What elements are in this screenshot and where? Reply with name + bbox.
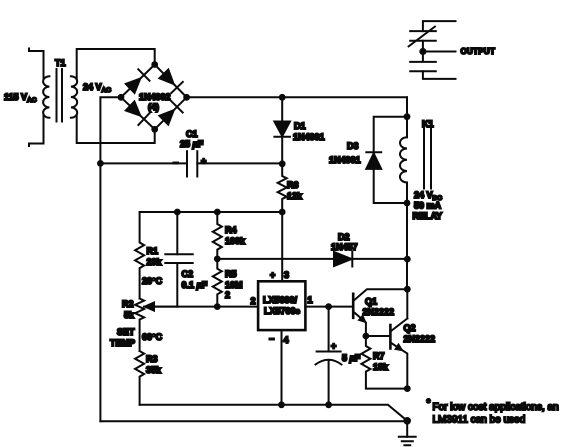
potentiometer R2 wiper arrow (145, 303, 177, 311)
svg-text:29k: 29k (147, 257, 163, 267)
node R6 bottom (279, 209, 286, 216)
wire C1 row (100, 162, 282, 164)
wire Q2 base row (366, 335, 391, 337)
svg-text:T1: T1 (55, 58, 66, 68)
svg-text:R5: R5 (225, 269, 237, 279)
ground (399, 437, 416, 446)
node 5uF top (325, 303, 332, 310)
node pin4 bottom (278, 401, 285, 408)
output contact bar4 (410, 70, 436, 72)
wire D2 row (217, 258, 407, 260)
svg-text:2: 2 (225, 290, 230, 300)
resistor R1 (135, 212, 144, 299)
svg-text:R4: R4 (225, 225, 237, 235)
node R5 bottom (214, 303, 221, 310)
svg-text:50 mA: 50 mA (414, 201, 442, 211)
output contacts top lead (423, 21, 456, 31)
capacitor C2 (165, 212, 192, 307)
transformer T1 core (57, 69, 63, 122)
svg-text:2: 2 (251, 296, 256, 306)
svg-text:(4): (4) (148, 102, 159, 112)
svg-text:LM3911 can be used: LM3911 can be used (433, 415, 526, 426)
pin 4 label (269, 334, 289, 345)
label SET TEMP (110, 327, 135, 348)
label R7 18k (373, 351, 389, 372)
svg-text:1N457: 1N457 (331, 242, 358, 252)
pin 3 label (270, 270, 289, 280)
node D3 top tee (404, 113, 411, 120)
label 24 VDC 50 mA RELAY (413, 190, 443, 221)
node D3 bottom tee (404, 200, 411, 207)
svg-text:R7: R7 (373, 351, 385, 361)
svg-text:For low cost applications, an: For low cost applications, an (433, 402, 559, 413)
node 5uF bottom (325, 401, 332, 408)
label R1 29k (147, 246, 163, 267)
resistor R7 (361, 336, 407, 389)
node ground tee (403, 417, 411, 425)
svg-text:1N4001: 1N4001 (329, 155, 361, 165)
output contact bar2 (410, 40, 436, 42)
wire bottom rail A (140, 405, 408, 421)
diode D2 (334, 252, 352, 267)
svg-text:TEMP: TEMP (110, 338, 135, 348)
svg-text:5 µF: 5 µF (342, 353, 361, 363)
node D1 top (279, 94, 286, 101)
svg-text:12k: 12k (287, 191, 303, 201)
svg-text:2N2222: 2N2222 (363, 307, 395, 317)
resistor R3 (135, 351, 144, 405)
transformer T1 secondary winding (71, 76, 77, 118)
label Q2 2N2222 (404, 323, 436, 344)
output contact bar3 (410, 52, 436, 62)
transistor Q1 (353, 289, 407, 336)
label C1 polarity (173, 156, 206, 168)
svg-text:K1: K1 (422, 119, 434, 129)
label D3 1N4001 (329, 141, 361, 165)
bridge diode top-right (159, 70, 182, 93)
svg-text:OUTPUT: OUTPUT (461, 47, 496, 56)
potentiometer R2 (135, 299, 144, 352)
wire pin3 vertical (281, 212, 283, 281)
wire top positive rail (187, 96, 407, 98)
svg-text:+: + (201, 156, 206, 166)
svg-text:60°C: 60°C (142, 332, 163, 342)
node bridge right (183, 94, 190, 101)
svg-text:5k: 5k (124, 310, 135, 320)
node C2 top (174, 209, 181, 216)
svg-text:4: 4 (284, 335, 289, 345)
svg-text:R2: R2 (122, 299, 134, 309)
svg-text:R1: R1 (147, 246, 159, 256)
op-amp U1 LX5600 box (258, 281, 305, 330)
wire secondary top to bridge top (77, 49, 155, 79)
label 1N4002 (4) (139, 92, 171, 112)
node R4 top (214, 209, 221, 216)
svg-text:LX5600/: LX5600/ (263, 295, 298, 305)
svg-text:*: * (427, 398, 431, 409)
node Q2 emitter tee (404, 385, 411, 392)
svg-text:1: 1 (308, 295, 313, 305)
node bridge bottom (151, 126, 158, 133)
node Q1 collector tee (404, 286, 411, 293)
wire bottom rail B (100, 420, 407, 422)
wire secondary bottom to bridge bottom (77, 116, 155, 144)
svg-text:35k: 35k (146, 365, 162, 375)
svg-text:SET: SET (117, 327, 135, 337)
svg-text:3: 3 (284, 270, 289, 280)
resistor R6 (278, 164, 287, 212)
svg-text:D1: D1 (294, 121, 306, 131)
svg-text:−: − (269, 334, 274, 344)
node Q1 emitter tee (363, 333, 370, 340)
node D2 right tee (404, 256, 411, 263)
label D2 1N457 (331, 232, 358, 252)
label C1 (180, 129, 204, 149)
transformer T1 primary winding (29, 49, 49, 147)
svg-text:100k: 100k (225, 236, 246, 246)
label LX5600/LX5700 (263, 295, 301, 320)
wire pin4 vertical (281, 330, 283, 405)
node output common (419, 48, 426, 55)
svg-text:1N4002: 1N4002 (139, 92, 171, 102)
svg-text:25 µF: 25 µF (180, 139, 204, 149)
transistor Q2 (390, 319, 407, 389)
bridge diode top-left (126, 69, 150, 93)
svg-text:D3: D3 (347, 141, 359, 151)
node C1 right tee (279, 160, 286, 167)
svg-text:+: + (270, 270, 275, 280)
wire bridge left node down left rail (100, 97, 121, 421)
bridge diode bottom-left (126, 101, 150, 125)
svg-text:10M: 10M (225, 280, 243, 290)
relay K1 core lines (424, 127, 431, 189)
svg-text:20°C: 20°C (142, 276, 163, 286)
label R4 100k (225, 225, 246, 246)
svg-text:R6: R6 (287, 180, 299, 190)
label R3 35k (146, 354, 162, 375)
output common lead (423, 41, 456, 52)
label R5 10M 2 (225, 269, 243, 300)
wire relay drop from rail (406, 97, 408, 116)
label C2 0.1uF (182, 269, 208, 290)
svg-text:RELAY: RELAY (413, 211, 443, 221)
label R2 5k (122, 299, 135, 320)
wire mid rail y212 (140, 211, 283, 213)
svg-text:0.1 µF: 0.1 µF (182, 280, 208, 290)
diode D1 (274, 97, 290, 164)
bridge diode bottom-right (159, 101, 182, 124)
node bridge left (118, 94, 125, 101)
capacitor C3 5uF (316, 307, 342, 405)
svg-text:R3: R3 (146, 354, 158, 364)
svg-text:C2: C2 (182, 269, 194, 279)
node bridge top (151, 61, 158, 68)
svg-text:18k: 18k (373, 362, 389, 372)
wire pin1 row (305, 306, 353, 308)
svg-text:+: + (331, 341, 336, 351)
bridge rectifier 1N4002 (4) outline (121, 65, 187, 130)
svg-text:Q1: Q1 (365, 297, 377, 307)
resistor R4 (213, 212, 222, 259)
node R4 R5 junction (214, 256, 221, 263)
label Q1 2N2222 (363, 297, 395, 318)
svg-text:C1: C1 (186, 129, 198, 139)
svg-text:Q2: Q2 (404, 323, 416, 333)
svg-text:D2: D2 (338, 232, 350, 242)
relay K1 coil (400, 117, 407, 203)
svg-text:−: − (173, 158, 178, 168)
label R6 12k (287, 180, 303, 201)
output contact slash (409, 27, 435, 47)
capacitor C1 (187, 151, 197, 176)
svg-text:1N4001: 1N4001 (293, 132, 325, 142)
output contact bar1 (410, 30, 436, 32)
label D1 1N4001 (293, 121, 325, 142)
wire relay to D2 node (406, 203, 408, 319)
diode D3 (366, 152, 381, 169)
wire D3 branch (374, 117, 407, 203)
resistor R5 (213, 259, 222, 307)
output bottom lead (423, 71, 456, 79)
svg-text:2N2222: 2N2222 (404, 334, 436, 344)
wire ground stub (406, 421, 408, 437)
wire pin2 row (144, 306, 258, 308)
node C1 left tee (97, 160, 104, 167)
